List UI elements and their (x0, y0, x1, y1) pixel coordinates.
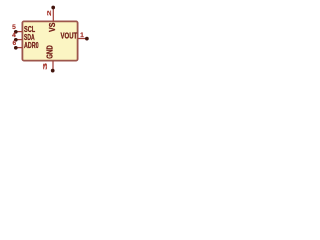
pin 6 junction dot (14, 46, 18, 50)
pin 3 junction dot (51, 69, 55, 73)
svg-text:3: 3 (42, 62, 49, 70)
pin 5 junction dot (14, 30, 18, 34)
svg-text:5: 5 (12, 24, 16, 31)
pin 2 junction dot (51, 6, 55, 10)
svg-text:4: 4 (12, 32, 16, 39)
pin 5 SCL wire (16, 31, 22, 33)
pin 2 VS wire (52, 9, 54, 21)
svg-text:ADR0: ADR0 (24, 42, 39, 50)
svg-text:SDA: SDA (24, 34, 35, 42)
svg-text:1: 1 (80, 32, 84, 39)
svg-text:GND: GND (46, 45, 55, 58)
svg-text:VOUT: VOUT (61, 33, 78, 41)
pin 1 junction dot (85, 37, 89, 41)
svg-text:6: 6 (12, 40, 16, 47)
pin 6 ADR0 wire (16, 47, 22, 49)
pin 3 GND wire (52, 61, 54, 70)
pin 4 SDA wire (16, 39, 22, 41)
svg-text:VS: VS (48, 23, 58, 32)
svg-text:2: 2 (47, 10, 53, 16)
pin 1 VOUT wire (78, 38, 87, 40)
pin 4 junction dot (14, 38, 18, 42)
IC symbol body (22, 21, 77, 60)
